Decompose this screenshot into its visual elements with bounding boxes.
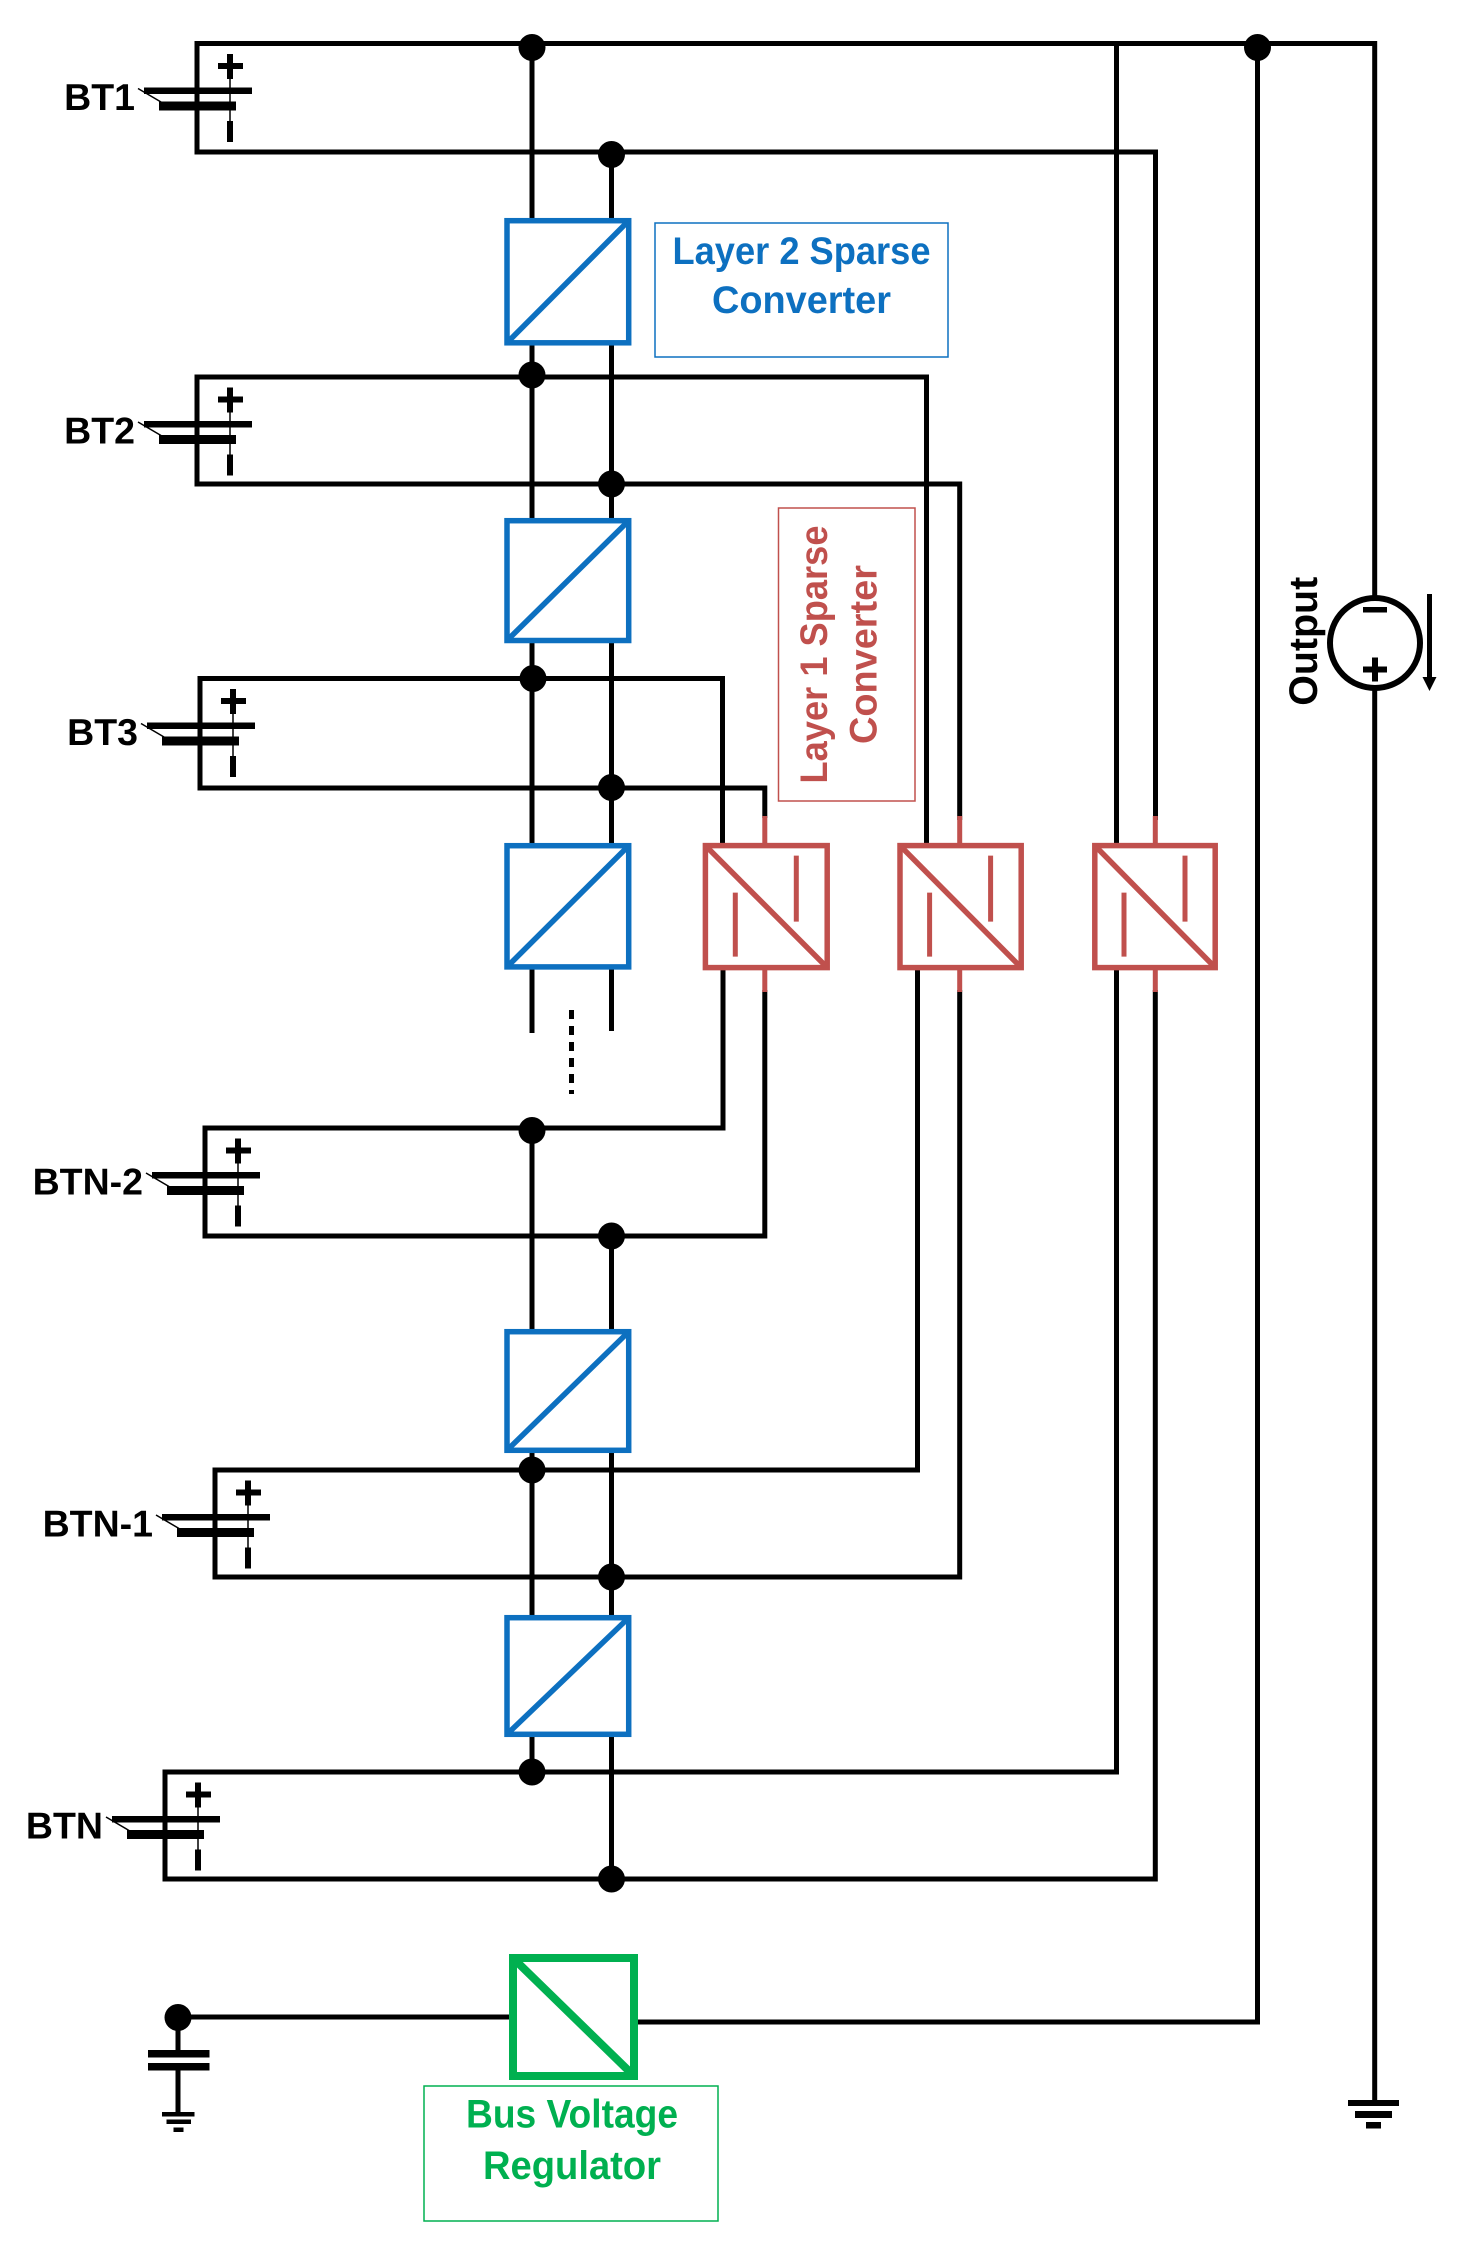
svg-text:Layer 2 Sparse: Layer 2 Sparse — [673, 230, 931, 273]
svg-text:BTN: BTN — [26, 1805, 103, 1847]
svg-text:Layer 1 Sparse: Layer 1 Sparse — [793, 526, 836, 784]
svg-text:Output: Output — [1282, 577, 1326, 706]
svg-text:BT3: BT3 — [67, 711, 138, 753]
svg-text:Regulator: Regulator — [483, 2144, 661, 2188]
svg-text:BT2: BT2 — [64, 410, 135, 452]
svg-text:Converter: Converter — [843, 565, 886, 744]
svg-text:BTN-2: BTN-2 — [33, 1161, 143, 1203]
svg-text:Bus Voltage: Bus Voltage — [466, 2093, 678, 2137]
svg-text:BT1: BT1 — [64, 76, 135, 118]
svg-text:Converter: Converter — [712, 279, 891, 322]
svg-text:BTN-1: BTN-1 — [43, 1503, 153, 1545]
